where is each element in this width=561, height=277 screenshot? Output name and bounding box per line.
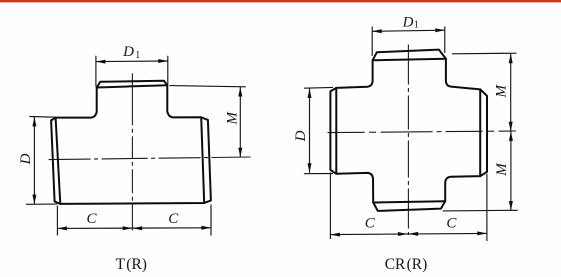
svg-text:1: 1: [414, 20, 419, 31]
cross left end inner line: [335, 88, 337, 174]
cross body outline: [330, 50, 487, 211]
dimension D1 (cross): [372, 27, 445, 57]
tee branch face inner line: [97, 85, 168, 87]
tee horizontal centerline: [49, 157, 251, 160]
svg-text:M: M: [494, 162, 510, 177]
svg-text:M: M: [224, 111, 240, 126]
svg-text:D: D: [402, 14, 414, 30]
dimension D1 (tee): [96, 56, 168, 87]
dimension M bottom (cross): [443, 131, 518, 211]
tee left end inner line: [56, 118, 61, 204]
svg-text:C: C: [446, 216, 457, 232]
svg-text:T(R): T(R): [116, 256, 147, 273]
tee body outline: [51, 81, 211, 204]
cross horizontal centerline: [328, 131, 516, 133]
top red border line: [0, 0, 561, 2]
svg-text:D: D: [293, 130, 309, 142]
dimension D (cross): [304, 87, 333, 173]
svg-text:C: C: [86, 211, 97, 227]
cross outer profile: [330, 50, 487, 211]
dimension C C (tee): [57, 205, 211, 236]
dimension D (tee): [26, 117, 57, 205]
svg-text:C: C: [365, 216, 376, 232]
svg-text:CR(R): CR(R): [385, 256, 428, 273]
cross bottom face inner line: [373, 201, 445, 202]
tee right end inner line: [201, 117, 204, 203]
svg-text:C: C: [168, 211, 179, 227]
cross vertical centerline: [407, 45, 409, 236]
dimension M (tee): [170, 86, 246, 158]
svg-text:D: D: [18, 153, 34, 165]
dimension C C (cross): [330, 173, 487, 242]
tee outer profile: [51, 81, 211, 204]
svg-text:1: 1: [135, 50, 140, 61]
svg-text:D: D: [122, 44, 134, 60]
svg-text:M: M: [493, 83, 509, 98]
cross right end inner line: [479, 89, 481, 176]
cross top face inner line: [373, 59, 446, 61]
dimension M top (cross): [452, 53, 517, 131]
tee vertical centerline: [131, 73, 133, 230]
